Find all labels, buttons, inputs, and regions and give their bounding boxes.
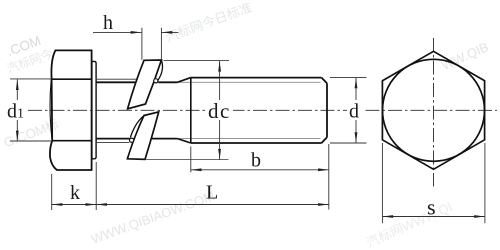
dimension k line <box>52 204 96 206</box>
svg-text:dc: dc <box>208 99 231 123</box>
full thread boundary <box>190 78 192 143</box>
svg-text:s: s <box>427 195 436 220</box>
watermark right-top <box>439 39 491 73</box>
dimension s line <box>382 216 485 218</box>
d arrows <box>355 78 358 89</box>
main centerline (axis) <box>28 109 497 111</box>
k arrows <box>52 203 63 206</box>
dc label <box>207 100 233 120</box>
upper coil split curl <box>154 79 158 83</box>
dc arrows <box>218 61 221 72</box>
thread body outline <box>191 78 327 143</box>
d1 arrows <box>16 79 19 90</box>
dimension b line <box>191 169 329 171</box>
watermark mid-left <box>2 116 61 150</box>
dimension dc line <box>219 61 221 160</box>
spring washer lower coil <box>127 112 158 159</box>
svg-text:d: d <box>349 101 359 123</box>
dimension d line <box>355 78 357 143</box>
spring washer upper coil <box>128 60 162 109</box>
hex head end view: vertical centerline <box>433 38 435 187</box>
dimension L line <box>96 204 329 206</box>
b arrows <box>191 168 202 171</box>
dimension d1 line <box>16 79 18 141</box>
inscribed circle <box>383 59 485 161</box>
svg-text:k: k <box>70 182 80 204</box>
dimension d extension lines <box>330 78 367 143</box>
svg-text:h: h <box>103 12 113 34</box>
thread runout cone <box>177 78 191 143</box>
dimension k extension lines <box>52 162 96 210</box>
watermark .COM top-left <box>5 33 43 59</box>
shank ID thin line bottom <box>97 141 129 143</box>
s arrows <box>382 215 393 218</box>
dc extension line bottom (thin) <box>146 159 229 161</box>
dimension h extension lines <box>142 28 162 60</box>
svg-text:L: L <box>206 182 218 204</box>
head facet line lower <box>52 140 92 142</box>
dimension b extension line left <box>190 146 192 172</box>
lower coil split curl <box>130 138 134 142</box>
shank bottom line <box>96 138 177 140</box>
d1 label <box>6 100 27 120</box>
head middle facet chamfer arc <box>50 80 52 141</box>
dimension s extension lines <box>382 143 485 223</box>
dimension d1 extension lines <box>10 79 52 141</box>
d label <box>347 100 364 120</box>
lower coil split end face <box>130 116 144 138</box>
L arrows <box>96 203 107 206</box>
upper coil split end face <box>158 60 163 81</box>
hexagon <box>382 51 484 169</box>
watermark bottom-right <box>364 199 455 250</box>
shank top line <box>96 81 177 83</box>
dimension h line <box>93 31 179 33</box>
watermark top-center <box>163 0 254 45</box>
head facet line upper <box>51 78 92 80</box>
watermark bottom-left <box>89 188 216 247</box>
thread root thin lines <box>178 82 321 138</box>
dc extension line top (thin) <box>164 60 230 62</box>
h arrows <box>131 31 142 34</box>
washer (plate behind head) <box>92 61 96 158</box>
shank ID thin line top <box>97 78 137 80</box>
svg-text:b: b <box>251 150 261 172</box>
hex head (side view) outline <box>50 50 92 170</box>
shared extension line right (b and L) <box>328 144 330 210</box>
